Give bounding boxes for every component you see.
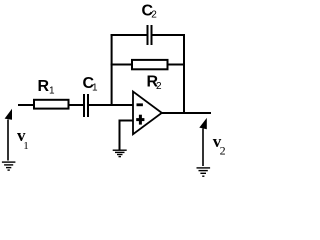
svg-text:2: 2 xyxy=(156,81,162,92)
arrow v2 xyxy=(199,118,207,166)
label C2 xyxy=(142,3,158,21)
wire R2 branch right xyxy=(168,64,186,66)
wire output xyxy=(162,112,212,114)
wire non-inverting input horizontal xyxy=(120,120,134,122)
svg-text:2: 2 xyxy=(220,143,226,157)
svg-text:1: 1 xyxy=(92,83,98,94)
wire feedback top left segment xyxy=(111,34,147,36)
resistor R1 xyxy=(34,100,69,109)
label C1 xyxy=(83,75,99,94)
label R2 xyxy=(147,73,163,91)
svg-text:2: 2 xyxy=(151,10,157,21)
capacitor C2 xyxy=(148,25,152,45)
wire C1 to op-amp inverting input xyxy=(88,104,133,106)
label v1 xyxy=(17,126,29,152)
svg-text:1: 1 xyxy=(23,140,29,152)
op-amp U1 inverting pin minus xyxy=(137,103,143,106)
svg-text:R: R xyxy=(38,78,50,95)
ground op-amp non-inverting input xyxy=(113,150,127,156)
wire input left segment xyxy=(18,104,34,106)
op-amp U1 xyxy=(133,92,162,135)
label v2 xyxy=(213,132,226,157)
wire R1 to C1 xyxy=(69,104,85,106)
wire feedback right vertical xyxy=(183,34,185,113)
wire non-inverting input vertical to ground xyxy=(119,120,121,151)
capacitor C1 xyxy=(84,94,88,117)
ground v2 xyxy=(197,168,211,176)
wire feedback top right segment xyxy=(153,34,186,36)
label R1 xyxy=(38,78,56,96)
wire feedback left vertical xyxy=(111,34,113,105)
svg-text:1: 1 xyxy=(49,85,55,96)
ground v1 xyxy=(2,162,16,170)
wire R2 branch left xyxy=(111,64,132,66)
arrow v1 xyxy=(5,109,12,161)
resistor R2 xyxy=(132,60,168,69)
op-amp U1 non-inverting pin plus xyxy=(136,115,144,125)
